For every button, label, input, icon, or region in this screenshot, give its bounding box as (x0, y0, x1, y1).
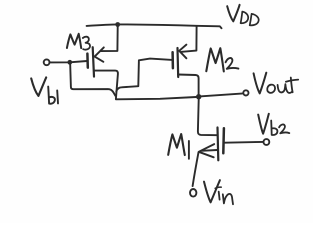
M2 channel bar (176, 48, 179, 77)
label M1 (168, 134, 189, 159)
terminal Vb2 (264, 139, 270, 145)
M3 source lead to VDD (101, 27, 118, 52)
M3 channel bar (93, 47, 94, 76)
net label VDD (227, 5, 258, 26)
transistor M2 (173, 27, 199, 95)
transistor M1 (193, 128, 224, 187)
M2 source arrow (179, 45, 186, 59)
M1 channel bar (216, 128, 219, 161)
net label Vb2 (258, 114, 289, 135)
M2 gate bar (171, 52, 174, 68)
wire: M3 drain to M2 gate (step up) (116, 59, 172, 92)
M1 source lead (201, 149, 217, 152)
label M2 (206, 48, 238, 71)
transistor M3 (87, 27, 118, 99)
wire: Vb1 node down and right to M3 drain node (70, 65, 115, 96)
net label Vin (204, 180, 233, 204)
wire: VDD rail (87, 24, 222, 28)
M1 gate bar (222, 128, 225, 153)
junction: Vb1 node (67, 60, 72, 65)
terminal Vout (243, 90, 248, 95)
terminal Vin (190, 189, 196, 197)
wire: Vout lead (201, 93, 243, 96)
M1 source wire down to Vin (193, 152, 199, 186)
M3 gate bar (86, 54, 89, 68)
M3 drain lead (94, 71, 118, 99)
net label Vb1 (31, 77, 58, 103)
terminal Vb1 (44, 59, 50, 65)
M3 source arrow (95, 47, 104, 61)
M2 drain lead down to Vout node (178, 75, 199, 95)
wire: Vout node down to M1 drain (198, 99, 217, 135)
junction: M3 source at VDD rail (115, 22, 120, 27)
label M3 (67, 34, 90, 50)
M1 source arrow (199, 144, 215, 157)
wire: M1 gate to Vb2 terminal (225, 141, 264, 144)
junction: Vout node (196, 94, 201, 99)
wire: Vb1 terminal to M3 gate (50, 61, 87, 62)
M2 source lead to VDD (182, 27, 197, 52)
wire: output node horizontal (116, 97, 196, 99)
net label Vout (254, 73, 299, 94)
